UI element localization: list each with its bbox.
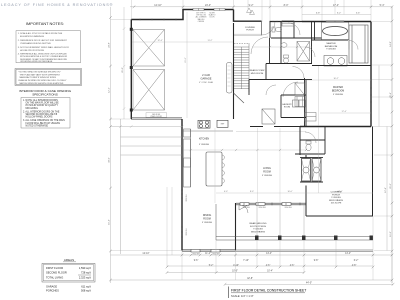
svg-text:ROOM: ROOM (284, 107, 291, 109)
master tub (322, 22, 349, 40)
bottom dim row 4 (167, 272, 304, 274)
garage bay X box 2 (133, 70, 165, 111)
covered porch (front) label (245, 27, 256, 32)
wall: master suite left block (295, 127, 325, 156)
driveway edge lines (121, 119, 183, 254)
svg-text:9'-2": 9'-2" (249, 4, 254, 7)
svg-text:4" CONC. SLAB: 4" CONC. SLAB (199, 81, 213, 84)
svg-text:2650 SH: 2650 SH (213, 254, 221, 256)
kitchen counter along wall (184, 129, 191, 187)
svg-text:BRICK PAVERS: BRICK PAVERS (251, 230, 265, 233)
window mullions living rear (244, 203, 300, 206)
svg-text:ROOM: ROOM (203, 218, 210, 221)
svg-text:21'-6": 21'-6" (185, 57, 187, 62)
double door unit right (312, 159, 321, 182)
refrigerator (217, 120, 228, 127)
svg-text:SOUTH PORCH: SOUTH PORCH (250, 226, 267, 228)
kitchen range (184, 158, 191, 167)
svg-text:HOLLOW PANEL DOORS: HOLLOW PANEL DOORS (26, 116, 53, 119)
svg-text:9' CEILING: 9' CEILING (331, 197, 341, 199)
left dimension ticks (109, 16, 112, 252)
garage notes text (196, 13, 208, 23)
svg-text:17'-4": 17'-4" (333, 4, 339, 7)
svg-text:4'-6": 4'-6" (266, 265, 271, 267)
rear wall window labels (243, 207, 293, 209)
svg-text:5/8" TYPE 'X': 5/8" TYPE 'X' (196, 13, 206, 15)
svg-text:6'-2": 6'-2" (354, 260, 359, 262)
pantry with diagonal (262, 109, 275, 124)
svg-text:ELEVATION DRAWINGS: ELEVATION DRAWINGS (20, 35, 45, 38)
svg-text:1. NOTE: ALL INTERIOR DOORS: 1. NOTE: ALL INTERIOR DOORS (23, 99, 58, 102)
WIC door arc (349, 41, 358, 50)
boxed window-size note (double border) (15, 69, 82, 86)
overall dim row 44'-0" (225, 283, 393, 285)
porch beam supports (257, 205, 304, 236)
svg-text:CEILING: CEILING (198, 21, 205, 23)
left dimension line (110, 7, 112, 283)
island stools (222, 155, 224, 183)
svg-text:GARAGE: GARAGE (46, 285, 57, 289)
svg-text:COVERED: COVERED (331, 192, 342, 194)
svg-text:2650 SH: 2650 SH (193, 254, 201, 256)
front porch edge (234, 34, 262, 35)
staircase (234, 43, 249, 92)
wall: garage bottom / overhead door (131, 118, 182, 119)
wall: master bedroom bottom (300, 126, 371, 128)
entry sidelight ticks (273, 21, 277, 22)
bedroom west wall (304, 78, 306, 127)
svg-text:SECOND FLOOR: SECOND FLOOR (46, 271, 67, 275)
svg-text:HOUSE PROPORTIONS: HOUSE PROPORTIONS (20, 50, 45, 52)
living room beam lines (258, 128, 281, 203)
svg-text:10'-4": 10'-4" (267, 271, 273, 273)
svg-text:MOULDING: MOULDING (26, 108, 39, 110)
master vanity with two sinks (324, 56, 347, 67)
areas table (42, 258, 95, 293)
svg-text:11'-6": 11'-6" (390, 231, 392, 237)
svg-text:SLOPE: SLOPE (209, 13, 214, 15)
garage bay X box 1 (133, 30, 165, 67)
svg-text:FIRST FLOOR: FIRST FLOOR (46, 266, 63, 270)
svg-text:2 CAR: 2 CAR (202, 73, 210, 77)
svg-text:TOTAL LIVING: TOTAL LIVING (46, 276, 63, 280)
svg-text:9'-6": 9'-6" (194, 260, 199, 262)
right extension lines (372, 22, 392, 251)
kitchen top counter edge (183, 130, 233, 132)
living room label (262, 167, 272, 177)
svg-text:9' CEILING: 9' CEILING (202, 222, 212, 224)
svg-text:BEDROOM: BEDROOM (332, 90, 344, 93)
svg-text:12'-2": 12'-2" (109, 87, 111, 93)
svg-text:3. ALL CASE OPENINGS ON THE M: 3. ALL CASE OPENINGS ON THE MAIN (23, 119, 65, 122)
laundry bottom wall (281, 117, 306, 119)
svg-text:3. NOTCH DIFFERENT SIZED WALL: 3. NOTCH DIFFERENT SIZED WALL HEIGHTS FO… (18, 46, 69, 49)
bath sink (281, 43, 287, 48)
bath entry door arc (305, 47, 315, 57)
svg-text:PORCH: PORCH (246, 30, 254, 32)
hall linen closets (295, 83, 305, 107)
svg-text:MANUFACTURER'S WINDOW SIZES: MANUFACTURER'S WINDOW SIZES (20, 76, 57, 79)
svg-text:12'-4": 12'-4" (385, 187, 387, 193)
wall: entry / porch front (234, 10, 262, 22)
svg-text:1,590 sq ft: 1,590 sq ft (79, 266, 91, 270)
top dimension line (130, 6, 392, 8)
left secondary dimension line (garage) (123, 7, 126, 119)
svg-text:2,323 sq ft: 2,323 sq ft (79, 276, 91, 280)
svg-text:MASTER: MASTER (326, 42, 336, 45)
svg-text:21'-6": 21'-6" (122, 67, 124, 73)
bottom ticks (109, 254, 394, 286)
entry interior dim row (252, 46, 312, 48)
covered porch label (329, 192, 343, 205)
svg-text:2650 SH: 2650 SH (259, 207, 267, 209)
svg-text:1. SCALE ALL STUCCO DETAILS F: 1. SCALE ALL STUCCO DETAILS FROM THE (18, 32, 63, 35)
svg-text:21'-0": 21'-0" (390, 183, 392, 189)
svg-text:ORDERING WINDOW PACKAGE: ORDERING WINDOW PACKAGE (20, 60, 53, 63)
svg-text:FIRST FLOOR DETAIL CONSTRUCTIO: FIRST FLOOR DETAIL CONSTRUCTION SHEET (231, 288, 306, 292)
specs box (21, 98, 70, 129)
laundry room label (282, 103, 292, 109)
svg-text:GYP. BD. ON: GYP. BD. ON (196, 15, 206, 17)
wall: dining/living divider (235, 203, 237, 251)
svg-text:16'-2": 16'-2" (333, 78, 338, 80)
rotated window labels west wall (186, 194, 188, 236)
wall: covered porch bottom (306, 215, 373, 217)
garage wall pilasters (130, 28, 133, 112)
kitchen dim row (183, 149, 306, 151)
wall: master bath top (302, 21, 371, 23)
svg-text:PORCHES: PORCHES (46, 289, 59, 293)
svg-text:CHANGE IN WINDOW SIZES SHOULD: CHANGE IN WINDOW SIZES SHOULD CLOSELY (18, 79, 67, 82)
garage/house party wall (233, 23, 235, 119)
walk-in closet (349, 25, 368, 63)
window sill boxes dining bottom (191, 249, 220, 252)
svg-text:9' CEILING: 9' CEILING (326, 48, 336, 50)
left extension lines (111, 20, 182, 251)
svg-text:12'-10": 12'-10" (142, 253, 149, 255)
garage front windows (193, 8, 225, 10)
svg-text:20'-4": 20'-4" (390, 92, 392, 98)
water heater unit on garage wall (227, 63, 233, 94)
bottom dim row 3 (167, 265, 373, 267)
svg-text:24'-0": 24'-0" (205, 4, 211, 7)
master suite divider wall (312, 22, 372, 66)
svg-text:4. REFERENCE ALL WINDOWS ON F: 4. REFERENCE ALL WINDOWS ON FLOORPLAN (18, 53, 67, 56)
svg-text:REAR GRILLING: REAR GRILLING (250, 222, 267, 225)
window marks bedroom east wall (370, 88, 372, 102)
svg-text:14'-4": 14'-4" (266, 253, 272, 255)
garage label: 2 CAR GARAGE (199, 73, 213, 84)
svg-text:14'-4": 14'-4" (345, 253, 351, 255)
header: LEGACY OF FINE HOMES & RENOVATIONS (1, 3, 113, 7)
bath toilet (284, 55, 289, 63)
svg-text:611 sq ft: 611 sq ft (81, 285, 91, 289)
svg-text:THE PLAN MAY VARY WITH DIFFERE: THE PLAN MAY VARY WITH DIFFERENT (20, 73, 61, 76)
garage note 2 (209, 13, 216, 19)
svg-text:728 sq ft: 728 sq ft (81, 271, 91, 275)
hall closet (282, 21, 294, 27)
master bath window ticks (326, 21, 344, 23)
wall: covered porch right (372, 127, 374, 217)
svg-text:PORCH: PORCH (332, 194, 340, 196)
svg-text:9' CEILING: 9' CEILING (333, 94, 343, 96)
bottom dim row 1 (111, 254, 393, 256)
svg-text:2650 SH: 2650 SH (186, 194, 188, 202)
svg-text:2. ALL INTERIOR DOORS ON THE: 2. ALL INTERIOR DOORS ON THE (23, 110, 60, 113)
keynote triangles (247, 8, 255, 15)
kitchen center line (214, 128, 216, 203)
wall: dining bottom (windows) (182, 250, 235, 251)
interior dim row (living) (216, 192, 373, 194)
right vertical dim texts (385, 41, 392, 237)
top dimension ticks (133, 6, 394, 9)
svg-text:44'-0": 44'-0" (306, 281, 312, 284)
svg-text:2650 SH: 2650 SH (186, 228, 188, 236)
important notes box (16, 31, 81, 63)
svg-text:5'-6": 5'-6" (356, 13, 361, 15)
svg-text:24'-8": 24'-8" (109, 42, 111, 48)
svg-text:REAR FOYER/: REAR FOYER/ (250, 69, 265, 72)
washer/dryer (293, 100, 306, 107)
dining room label (202, 214, 212, 224)
svg-text:OVERHANG/CEILING DEPTHS: OVERHANG/CEILING DEPTHS (20, 42, 51, 45)
svg-text:17'-4": 17'-4" (341, 111, 346, 113)
rear grilling porch label (250, 222, 267, 233)
svg-text:10'-0": 10'-0" (232, 271, 238, 273)
kitchen island (206, 152, 222, 186)
svg-text:11'-2": 11'-2" (208, 40, 213, 42)
master bedroom label (332, 86, 344, 96)
bottom dim row 5 (111, 279, 393, 281)
svg-text:9'-8": 9'-8" (314, 260, 319, 262)
porch interior dim line (318, 127, 320, 193)
svg-text:4'-6": 4'-6" (290, 265, 295, 267)
svg-text:8'0 SOLID WOOD W/ QUALITY: 8'0 SOLID WOOD W/ QUALITY (26, 104, 59, 107)
window marks dining west wall (181, 190, 183, 237)
garage front window ticks (140, 19, 176, 21)
top extension lines (132, 0, 393, 283)
wall: right outer (370, 22, 372, 127)
bedroom interior dim (305, 80, 371, 113)
svg-text:10'-0": 10'-0" (287, 191, 292, 193)
pantry chamfer at dining corner (239, 205, 248, 213)
svg-text:SCALE: 1/4" = 1'-0": SCALE: 1/4" = 1'-0" (231, 294, 254, 298)
svg-text:LEGACY OF FINE HOMES & RENOVAT: LEGACY OF FINE HOMES & RENOVATIONS® (1, 3, 113, 7)
svg-text:34'-6": 34'-6" (109, 157, 111, 163)
wall: entry side (261, 21, 263, 35)
svg-text:7'-10": 7'-10" (243, 260, 249, 262)
living dim row top (236, 131, 306, 133)
svg-text:9' CEILING: 9' CEILING (199, 144, 209, 146)
porch edge beam (216, 204, 373, 240)
svg-text:OVHD. DOOR: OVHD. DOOR (150, 116, 162, 118)
svg-text:IMPORTANT NOTES:: IMPORTANT NOTES: (26, 21, 64, 26)
svg-text:NOTED OTHERWISE: NOTED OTHERWISE (26, 125, 49, 127)
svg-text:11'-2": 11'-2" (205, 253, 211, 255)
wall: living room rear (windows) (236, 203, 306, 205)
bottom dim texts (142, 253, 358, 280)
svg-text:4'-10": 4'-10" (233, 265, 239, 267)
svg-text:ON THE MAIN FLOOR WILL BE: ON THE MAIN FLOOR WILL BE (26, 102, 60, 105)
porch slab edge (235, 250, 373, 252)
svg-text:8'-0": 8'-0" (250, 191, 254, 193)
svg-text:MATCH WINDOW SHOWN ON ELEVATIO: MATCH WINDOW SHOWN ON ELEVATIONS (20, 82, 64, 85)
bedroom interior dim line (318, 66, 320, 126)
svg-text:5'-4": 5'-4" (380, 4, 385, 7)
svg-text:9' CEILING: 9' CEILING (262, 175, 272, 177)
svg-text:BATHROOM: BATHROOM (325, 45, 338, 48)
svg-text:ROOM: ROOM (263, 171, 270, 174)
WC door arc (305, 132, 316, 143)
svg-text:KITCHEN: KITCHEN (199, 139, 209, 141)
master bathroom label (325, 42, 338, 50)
svg-text:14'-8": 14'-8" (390, 41, 392, 47)
notes heading: IMPORTANT NOTES (26, 21, 64, 26)
svg-text:6'-0": 6'-0" (224, 191, 228, 193)
svg-text:42'-8": 42'-8" (247, 278, 253, 280)
svg-text:AREAS: AREAS (64, 258, 74, 262)
wall: foyer top (270, 21, 303, 23)
double door unit header (300, 158, 323, 182)
laundry walls (249, 80, 306, 127)
svg-text:6'-8": 6'-8" (316, 13, 321, 15)
kitchen range with burners (198, 120, 210, 128)
svg-text:4'-8": 4'-8" (352, 265, 357, 267)
title bar (229, 287, 307, 299)
svg-text:GARAGE: GARAGE (200, 77, 211, 81)
svg-text:MUD ROOM: MUD ROOM (251, 73, 264, 75)
right dimension line (379, 7, 392, 284)
svg-text:16'-4": 16'-4" (109, 219, 111, 225)
entry door swing (262, 22, 276, 36)
svg-text:BRICK PAVERS: BRICK PAVERS (329, 199, 343, 202)
wall: house left (below garage) (181, 119, 183, 251)
dining window labels (193, 254, 221, 256)
double door unit left (302, 159, 311, 182)
kitchen/hall wall (250, 126, 306, 128)
wall: garage left (130, 20, 132, 120)
master WC toilet (306, 141, 311, 151)
svg-text:2650 SH: 2650 SH (285, 207, 293, 209)
window sill boxes rear wall (240, 203, 291, 206)
master WC walls (300, 127, 325, 155)
specs heading: INTERIOR DOOR & CASE OPENING SPECIFICATIONS (19, 89, 72, 96)
wall: garage front (top) (131, 10, 233, 20)
porch posts (255, 236, 373, 241)
left vertical dim texts (109, 42, 125, 225)
svg-text:12'-4": 12'-4" (157, 40, 162, 42)
top dimension text (154, 4, 384, 7)
door arcs middle (251, 23, 300, 97)
garage apron dim row (111, 125, 184, 128)
right dimension ticks (391, 20, 394, 253)
secondary top dimension row (master bath) (302, 14, 371, 16)
wall: porch/living divider (305, 155, 307, 216)
svg-text:SPECIFICATIONS: SPECIFICATIONS (32, 92, 58, 96)
svg-text:2. REFERENCE ROOF LAYOUT FOR: 2. REFERENCE ROOF LAYOUT FOR DIFFERENT (18, 39, 68, 42)
garage entry door (diagonal) (234, 93, 245, 103)
kitchen label (199, 139, 210, 147)
master bedroom door arc (293, 67, 305, 79)
svg-text:508 sq ft: 508 sq ft (81, 289, 91, 293)
svg-text:9' CEILING: 9' CEILING (253, 229, 263, 231)
svg-text:3'-2": 3'-2" (337, 13, 342, 15)
hall walls (249, 22, 312, 80)
garage interior dim lines (132, 12, 233, 118)
svg-text:WITH ELEVATIONS & NOTIFY OWNER: WITH ELEVATIONS & NOTIFY OWNER AND/OR (20, 55, 68, 58)
svg-text:12'-10": 12'-10" (154, 4, 162, 7)
bedroom desk nook (305, 113, 317, 122)
svg-text:5'-2": 5'-2" (209, 265, 214, 267)
powder toilet (272, 27, 282, 32)
garage door label (146, 113, 167, 118)
shower with X (297, 42, 310, 62)
svg-text:8'-0": 8'-0" (284, 4, 289, 7)
rear foyer label (250, 69, 265, 75)
svg-text:10% SLOPE: 10% SLOPE (331, 203, 342, 205)
bottom extension lines (167, 187, 373, 280)
svg-text:* NOTED WINDOW SIZES AS SHOWN: * NOTED WINDOW SIZES AS SHOWN ON * (18, 71, 61, 74)
